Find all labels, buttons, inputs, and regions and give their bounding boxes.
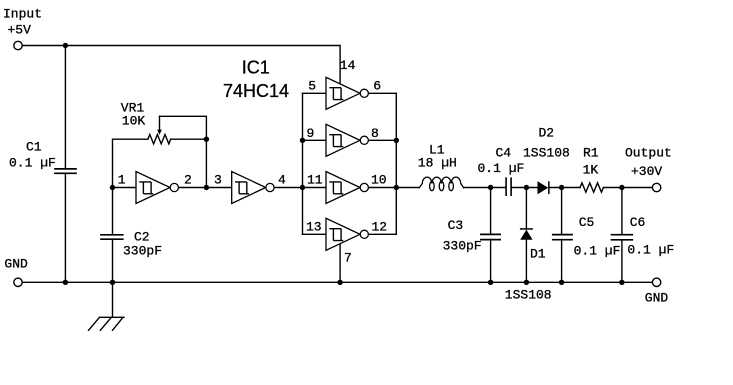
junction dot node pin1 — [110, 185, 115, 190]
capacitor C3 plates — [481, 234, 500, 239]
wire pin 13 input — [303, 233, 327, 235]
wire C1 branch lower — [64, 173, 66, 282]
inductor L1 loop 2 — [439, 182, 444, 191]
bubble gate1 — [170, 183, 178, 191]
junction dot input bus pin11 — [300, 185, 305, 190]
hysteresis symbol gate13 — [329, 229, 343, 241]
inverter IC1d gate pins 9-8 — [326, 124, 360, 156]
terminal input — [14, 41, 22, 49]
junction dot main C5 — [559, 185, 564, 190]
svg-text:1K: 1K — [583, 162, 599, 177]
svg-text:C2: C2 — [134, 229, 150, 244]
svg-text:+30V: +30V — [631, 164, 662, 179]
capacitor C6 plates — [612, 235, 633, 240]
svg-text:14: 14 — [340, 58, 356, 73]
wire pin 8 output — [368, 139, 396, 141]
svg-text:1SS108: 1SS108 — [505, 287, 552, 302]
svg-text:13: 13 — [306, 219, 322, 234]
svg-text:18 µH: 18 µH — [418, 156, 457, 171]
junction dot gnd C3 — [488, 280, 493, 285]
inductor L1 loop 1 — [430, 182, 435, 191]
diode D2 cathode bar — [548, 181, 550, 194]
junction dot output bus pin8 — [394, 138, 399, 143]
inductor L1 loop 3 — [449, 182, 454, 191]
resistor VR1 — [148, 135, 171, 144]
svg-text:330pF: 330pF — [123, 244, 162, 259]
resistor R1 — [580, 183, 603, 192]
capacitor C2 plates — [101, 235, 123, 239]
svg-text:8: 8 — [371, 126, 379, 141]
diode D1 cathode bar — [520, 228, 533, 230]
svg-text:6: 6 — [373, 78, 381, 93]
wire input bus vertical — [302, 93, 304, 234]
svg-text:C3: C3 — [448, 218, 464, 233]
hysteresis symbol gate11 — [329, 182, 343, 194]
svg-text:0.1 µF: 0.1 µF — [478, 161, 525, 176]
svg-text:12: 12 — [372, 219, 388, 234]
wire pin 12 output — [368, 233, 396, 235]
svg-text:C5: C5 — [579, 215, 595, 230]
wire bottom ground rail — [23, 281, 652, 283]
wire D1 branch — [525, 188, 527, 283]
wire D2 to R1 — [550, 187, 580, 189]
junction dot main C3 — [488, 185, 493, 190]
wire pin 1 input — [113, 187, 137, 189]
wire pin 5 input — [303, 92, 327, 94]
svg-text:0.1 µF: 0.1 µF — [627, 243, 674, 258]
svg-text:0.1 µF: 0.1 µF — [574, 243, 621, 258]
junction dot top rail C1 — [63, 43, 68, 48]
wire C6 branch — [621, 188, 623, 283]
arrowhead VR1 wiper — [157, 130, 162, 135]
wire R1 to output terminal — [603, 187, 652, 189]
wire C3 branch — [490, 188, 492, 283]
svg-text:Output: Output — [625, 145, 672, 160]
svg-text:9: 9 — [307, 126, 315, 141]
svg-text:5: 5 — [308, 78, 316, 93]
bubble gate9 — [360, 136, 368, 144]
junction dot VR1 right leg — [204, 137, 209, 142]
wire pin 7 to ground rail — [339, 244, 341, 282]
bubble gate11 — [360, 183, 368, 191]
svg-text:330pF: 330pF — [443, 238, 482, 253]
wire VR1 left leg — [113, 139, 148, 187]
junction dot gnd C6 — [619, 280, 624, 285]
wire VR1 wiper top rail — [160, 116, 207, 139]
svg-text:D2: D2 — [539, 126, 555, 141]
wire pin 11 input — [303, 187, 327, 189]
junction dot main D1 — [524, 185, 529, 190]
svg-text:GND: GND — [4, 257, 28, 272]
wire C2 branch — [112, 188, 114, 283]
wire gate1 output to gate2 input — [178, 187, 231, 189]
junction dot gnd pin7 — [337, 280, 342, 285]
hysteresis symbol gate9 — [329, 135, 343, 147]
capacitor C4 plates — [506, 178, 511, 195]
wire VR1 wiper arrow stem — [159, 116, 161, 130]
inverter IC1e gate pins 11-10 — [326, 172, 360, 204]
inverter IC1b gate pins 3-4 — [232, 172, 266, 204]
wire pin 10 output — [368, 187, 396, 189]
svg-text:2: 2 — [184, 172, 192, 187]
junction dot output bus pin10 — [394, 185, 399, 190]
svg-text:10: 10 — [371, 172, 387, 187]
wire pin 9 input — [303, 139, 327, 141]
svg-text:C1: C1 — [26, 140, 42, 155]
wire C1 branch upper — [64, 46, 66, 169]
diode D1 triangle — [520, 230, 532, 240]
svg-text:1: 1 — [118, 172, 126, 187]
wire output bus vertical — [395, 93, 397, 234]
inverter IC1f gate pins 13-12 — [326, 218, 360, 250]
svg-text:+5V: +5V — [8, 22, 32, 37]
svg-text:74HC14: 74HC14 — [223, 81, 289, 101]
svg-text:4: 4 — [278, 172, 286, 187]
hysteresis symbol gate2 — [235, 182, 249, 194]
svg-text:R1: R1 — [583, 146, 599, 161]
wire C4 to D2 — [512, 187, 538, 189]
svg-text:10K: 10K — [122, 114, 146, 129]
wire C5 branch — [561, 188, 563, 283]
junction dot gnd C2 — [110, 280, 115, 285]
earth ground symbol — [89, 282, 125, 330]
wire pin 6 output — [368, 92, 396, 94]
hysteresis symbol gate1 — [139, 182, 153, 194]
inductor L1 — [419, 177, 464, 188]
wire gate2 output to input bus — [274, 187, 302, 189]
junction dot node pins 2-3 — [204, 185, 209, 190]
terminal gnd left — [14, 278, 22, 286]
bubble gate5 — [360, 89, 368, 97]
wire VR1 right leg — [171, 138, 207, 140]
junction dot main C6 — [619, 185, 624, 190]
bubble gate13 — [360, 230, 368, 238]
capacitor C1 plates — [55, 169, 76, 173]
terminal output — [652, 183, 660, 191]
svg-text:Input: Input — [3, 7, 42, 22]
terminal gnd right — [652, 278, 660, 286]
svg-text:C4: C4 — [496, 146, 512, 161]
junction dot gnd C5 — [559, 280, 564, 285]
diode D2 triangle — [538, 181, 549, 194]
svg-text:11: 11 — [307, 172, 323, 187]
wire top rail from input terminal to pin 14 drop — [23, 46, 341, 85]
capacitor C5 plates — [553, 235, 572, 240]
junction dot gnd C1 — [63, 280, 68, 285]
wire node 2-3 vertical — [205, 139, 207, 187]
svg-text:3: 3 — [214, 172, 222, 187]
bubble gate2 — [266, 183, 274, 191]
svg-text:7: 7 — [344, 250, 352, 265]
inverter IC1a gate pins 1-2 — [136, 172, 170, 204]
wire L1 to C4 — [464, 187, 506, 189]
svg-text:GND: GND — [645, 290, 669, 305]
svg-text:0.1 µF: 0.1 µF — [9, 156, 56, 171]
svg-text:1SS108: 1SS108 — [523, 146, 570, 161]
junction dot input bus pin9 — [300, 138, 305, 143]
svg-text:IC1: IC1 — [242, 58, 270, 78]
svg-text:D1: D1 — [530, 246, 546, 261]
junction dot gnd D1 — [524, 280, 529, 285]
svg-text:C6: C6 — [630, 215, 646, 230]
inverter IC1c gate pins 5-6 — [326, 77, 360, 109]
hysteresis symbol gate5 — [329, 88, 343, 100]
wire output bus to L1 — [396, 187, 419, 189]
